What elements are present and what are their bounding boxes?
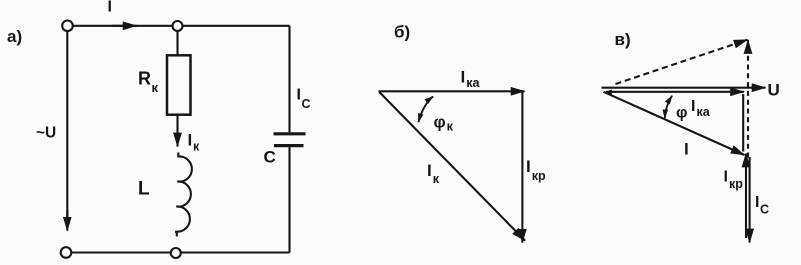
- wire junction to resistor: [176, 26, 178, 55]
- inductor L: [175, 153, 192, 237]
- wire right branch upper: [288, 26, 290, 132]
- svg-text:U: U: [768, 81, 780, 100]
- current arrow I: [112, 25, 137, 27]
- phasor U: [602, 87, 766, 89]
- dashed vertical with up arrow: [747, 40, 749, 158]
- current arrow Ik: [176, 115, 178, 147]
- svg-text:φ: φ: [676, 105, 687, 122]
- terminal top-left: [62, 21, 73, 32]
- arrowhead left of Ika: [603, 90, 612, 96]
- wire left (voltage source): [66, 31, 68, 218]
- svg-text:~U: ~U: [36, 125, 56, 142]
- svg-text:I: I: [684, 140, 689, 159]
- junction bottom: [171, 248, 181, 258]
- terminal bottom-left: [61, 247, 72, 258]
- svg-text:б): б): [394, 23, 410, 42]
- dashed phasor compensated: [616, 40, 748, 84]
- phasor I: [604, 92, 745, 155]
- svg-text:C: C: [264, 148, 276, 167]
- capacitor C: [274, 134, 306, 146]
- phasor Ikr down: [749, 157, 751, 243]
- svg-text:в): в): [615, 30, 631, 49]
- wire top: [68, 25, 290, 27]
- junction top: [173, 21, 183, 31]
- svg-text:I: I: [108, 0, 112, 16]
- phasor Ic up: [745, 154, 747, 239]
- voltage arrow: [66, 210, 68, 231]
- resistor Rk: [167, 55, 191, 114]
- phasor Ik diagonal: [379, 92, 525, 241]
- net reactive segment: [742, 94, 744, 152]
- angle arc phi_k: [419, 97, 434, 123]
- wire right branch lower: [288, 147, 290, 252]
- svg-text:L: L: [138, 179, 150, 200]
- phasor Ika horizontal: [379, 90, 525, 92]
- phasor Ika double-headed: [606, 91, 744, 93]
- svg-text:а): а): [7, 27, 22, 46]
- phasor Ikr vertical: [521, 91, 523, 242]
- angle arc phi: [665, 96, 672, 118]
- wire bottom: [66, 251, 290, 253]
